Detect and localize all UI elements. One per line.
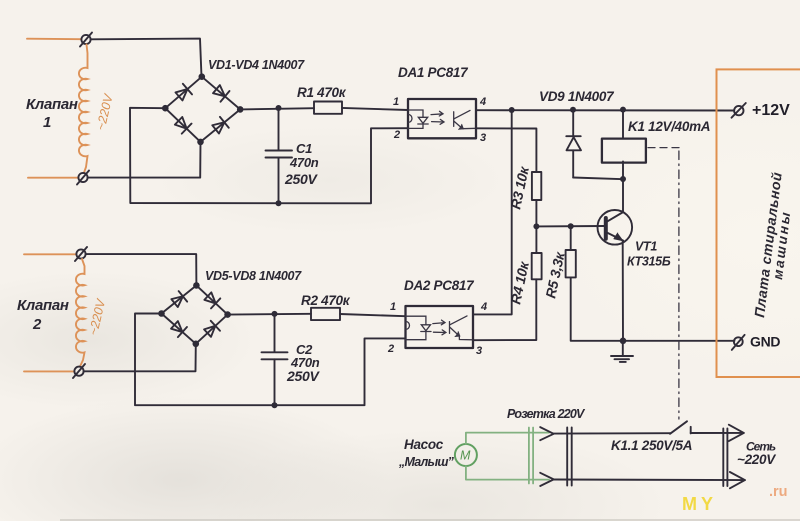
svg-text:1: 1 <box>390 301 396 313</box>
wire base node to VT1 base <box>536 225 604 227</box>
connector bars green (socket) <box>529 428 533 484</box>
diode bridge VD5-VD8 frame <box>162 285 228 343</box>
inductor L2 (Клапан 2 coil, orange) <box>76 259 85 367</box>
svg-text:M: M <box>460 449 471 463</box>
diode VD8 (bottom-right arm) <box>203 321 220 338</box>
wire bridge1 minus to bottom rail to DA1 pin2 <box>130 108 408 204</box>
node bridge2 bottom <box>193 341 200 348</box>
node bridge2 left <box>158 310 165 317</box>
wire emitter to ground <box>622 241 624 341</box>
svg-text:DA1 PC817: DA1 PC817 <box>398 65 469 80</box>
terminal +12V <box>732 103 746 118</box>
resistor R4 <box>532 253 542 279</box>
svg-text:GND: GND <box>750 334 780 350</box>
svg-text:4: 4 <box>479 96 486 108</box>
node C1 bottom junction <box>276 200 282 206</box>
wire bridge2 minus to bottom rail to DA2 pin2 <box>135 314 405 406</box>
resistor R1 <box>314 102 342 114</box>
wire T1 bottom to bridge1 AC bottom <box>88 142 201 178</box>
svg-text:1: 1 <box>393 96 399 108</box>
terminal GND <box>732 335 745 350</box>
node rail junction relay K1 <box>620 107 626 113</box>
mechanical link dash-dot vertical <box>678 151 680 419</box>
wire R5 bottom to ground rail <box>571 277 735 340</box>
wire relay coil bottom to collector <box>622 161 624 211</box>
svg-text:2: 2 <box>387 343 394 355</box>
capacitor C1 <box>266 108 293 203</box>
wire T2 bottom to bridge2 AC bottom <box>84 344 196 372</box>
svg-text:„Малыш”: „Малыш” <box>398 455 455 469</box>
diode VD2 (top-right arm) <box>212 84 230 102</box>
wire R5 top lead <box>570 226 572 250</box>
connector bars black (plug) <box>567 428 572 486</box>
svg-text:Насос: Насос <box>404 437 444 452</box>
wire orange stub top terminal 2 <box>24 253 76 255</box>
wire DA2 pin3 to R4 bottom <box>473 279 536 340</box>
diode VD3 (bottom-left arm) <box>174 116 192 134</box>
diode VD4 (bottom-right arm) <box>211 117 229 135</box>
diode VD9 <box>566 110 581 178</box>
wire bridge2 plus to R2 <box>228 313 311 316</box>
svg-text:.ru: .ru <box>769 484 788 500</box>
LED inside DA1 <box>408 110 428 128</box>
node bridge1 left <box>162 105 169 112</box>
scan edge bottom <box>60 519 800 521</box>
svg-text:250V: 250V <box>286 368 320 384</box>
svg-text:+12V: +12V <box>752 102 790 119</box>
wire green motor bottom to plug <box>466 466 549 480</box>
svg-text:1: 1 <box>43 114 51 131</box>
resistor R5 <box>566 250 576 277</box>
svg-text:VD1-VD4 1N4007: VD1-VD4 1N4007 <box>208 58 305 72</box>
svg-text:2: 2 <box>32 316 42 333</box>
diode VD6 (top-right arm) <box>203 291 220 308</box>
node C2 bottom junction <box>272 402 278 408</box>
wire orange stub bottom terminal 2 <box>24 370 74 372</box>
svg-text:K1 12V/40mA: K1 12V/40mA <box>628 119 710 134</box>
diode VD1 (top-left arm) <box>174 84 192 102</box>
svg-text:2: 2 <box>393 129 400 141</box>
svg-text:~220V: ~220V <box>94 91 116 131</box>
terminal X2.1 <box>75 247 87 261</box>
svg-text:3: 3 <box>480 132 486 144</box>
svg-text:3: 3 <box>476 345 482 357</box>
capacitor C2 <box>262 314 288 405</box>
svg-text:R1 470к: R1 470к <box>297 85 347 100</box>
phototransistor inside DA2 <box>450 316 474 340</box>
svg-text:~220V: ~220V <box>86 296 108 336</box>
svg-text:Розетка 220V: Розетка 220V <box>507 407 586 421</box>
svg-text:MY: MY <box>682 494 717 514</box>
mains arrow top (to Сеть) <box>729 425 744 441</box>
node R5 top junction <box>568 223 574 229</box>
resistor R3 <box>532 172 541 200</box>
node rail junction VD9 <box>570 107 576 113</box>
wire orange stub bottom terminal 1 <box>28 177 78 179</box>
wire VD9 anode to relay bottom node <box>573 178 623 180</box>
wire green motor top to plug <box>466 433 549 444</box>
connector bars right <box>723 429 727 487</box>
washing machine board outline (orange box) <box>717 69 800 377</box>
svg-text:250V: 250V <box>284 171 318 187</box>
wire rail to relay coil top <box>622 110 624 139</box>
LED inside DA2 <box>406 316 432 340</box>
light arrows inside DA1 <box>431 111 444 124</box>
node C1 top junction <box>276 105 282 111</box>
ground symbol <box>611 341 633 362</box>
phototransistor inside DA1 <box>454 110 476 129</box>
wire orange stub top terminal 1 <box>27 38 81 41</box>
node bridge2 top <box>193 282 200 289</box>
wire R1 to DA1 pin1 <box>342 108 408 110</box>
wire bottom mains <box>554 479 745 482</box>
svg-text:K1.1 250V/5A: K1.1 250V/5A <box>611 438 692 453</box>
svg-text:R2 470к: R2 470к <box>301 293 351 308</box>
svg-text:КТ315Б: КТ315Б <box>627 255 671 269</box>
node relay bottom junction <box>620 176 626 182</box>
svg-text:Клапан: Клапан <box>26 96 78 113</box>
diode VD5 (top-left arm) <box>170 291 187 308</box>
mains arrow bottom (to Сеть) <box>730 472 745 488</box>
diode VD7 (bottom-left arm) <box>170 320 187 337</box>
optocoupler U-DA1 body <box>408 99 476 138</box>
node C2 top junction <box>272 311 278 317</box>
wire switch to right bars <box>691 432 744 434</box>
svg-text:C1: C1 <box>296 141 312 156</box>
node rail junction DA2 collector riser <box>509 107 515 113</box>
terminal X1.1 <box>80 33 92 47</box>
node bridge1 right <box>237 106 244 113</box>
mechanical link dashes from relay <box>648 147 679 149</box>
svg-text:DA2 PC817: DA2 PC817 <box>404 278 475 293</box>
svg-text:Клапан: Клапан <box>17 297 69 314</box>
wire T1 top to bridge1 AC top <box>91 39 202 77</box>
wire DA2 pin4 up to +12V rail <box>473 110 512 314</box>
wire R2 to DA2 pin1 <box>340 314 405 316</box>
svg-text:VD9 1N4007: VD9 1N4007 <box>539 89 615 104</box>
motor M1 (pump, green) <box>455 444 477 466</box>
resistor R2 <box>311 308 340 320</box>
wire R3 bottom to base node <box>535 200 537 253</box>
wire +12V rail from DA1 pin4 to terminal <box>476 109 734 111</box>
svg-text:4: 4 <box>480 301 487 313</box>
svg-text:~220V: ~220V <box>737 452 776 467</box>
switch contact K1.1 lever <box>670 421 687 434</box>
light arrows inside DA2 <box>433 320 446 335</box>
node bridge2 right <box>224 311 231 318</box>
relay coil K1 <box>602 139 646 163</box>
node bridge1 bottom <box>197 139 204 146</box>
optocoupler U-DA2 body <box>406 306 474 348</box>
transistor VT1 <box>598 210 633 245</box>
wire bridge1 plus to R1 <box>240 108 314 109</box>
svg-text:470n: 470n <box>289 155 319 170</box>
terminal X1.2 <box>77 171 89 185</box>
plug arrow top <box>540 427 554 440</box>
node ground junction <box>620 338 627 345</box>
terminal X2.2 <box>73 364 85 378</box>
node base junction <box>533 223 539 229</box>
node bridge1 top <box>199 73 206 80</box>
diode bridge VD1-VD4 frame <box>165 77 240 142</box>
plug arrow bottom <box>540 473 554 486</box>
wire DA1 pin3 to R3 top <box>476 128 536 172</box>
wire top mains to switch <box>554 432 671 434</box>
svg-text:VD5-VD8 1N4007: VD5-VD8 1N4007 <box>205 269 302 283</box>
wire T2 top to bridge2 AC top <box>86 254 197 285</box>
svg-text:VT1: VT1 <box>635 240 657 254</box>
svg-text:R5 3,3к: R5 3,3к <box>542 250 568 300</box>
switch contact tick <box>690 427 692 434</box>
inductor L1 (Клапан 1 coil, orange) <box>79 45 88 173</box>
